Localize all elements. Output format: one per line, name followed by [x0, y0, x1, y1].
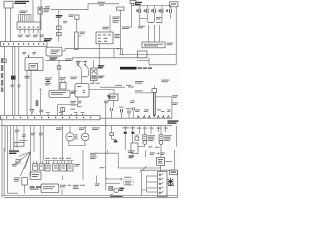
- fuse F2: [144, 6, 148, 13]
- heavy bar continuation dashes: [138, 67, 153, 69]
- center bottom vertical wire: [107, 150, 109, 153]
- interior lamp label: [122, 27, 131, 30]
- diagonal jog wire: [140, 166, 147, 172]
- resistor assembly mid bottom: [110, 126, 114, 136]
- key warning switch label: [44, 8, 51, 12]
- ignition switch text: [20, 11, 28, 13]
- lower label a: [15, 130, 20, 133]
- harness line right continuation: [100, 117, 172, 119]
- wire below fuse F1: [139, 13, 141, 25]
- resistor 1 label: [148, 135, 155, 141]
- nested box radio: [137, 51, 147, 58]
- wire right lower feed: [155, 97, 172, 118]
- left harness wire 1: [4, 46, 6, 115]
- labels on mid right wire: [115, 85, 134, 88]
- text row under flasher: [90, 83, 100, 84]
- blower resistor wire A: [138, 126, 140, 134]
- lower wire L2: [8, 126, 19, 194]
- fusible link label: [45, 6, 50, 9]
- inline tick component bottom left: [16, 160, 20, 163]
- blower resistor box 1: [143, 135, 147, 141]
- relay K4: [67, 161, 73, 171]
- lower wire L3: [10, 126, 12, 150]
- mid-right label A: [135, 81, 144, 84]
- wire into starter relay top: [109, 15, 111, 32]
- hazard label: [98, 76, 104, 79]
- sidebar rotated page label: [1, 58, 3, 92]
- small box on L6: [14, 143, 24, 147]
- wire stub center vertical: [113, 49, 115, 58]
- wire down from module: [113, 101, 115, 108]
- blower resistor box 2: [159, 135, 163, 141]
- wire stub corner to bus: [133, 3, 135, 5]
- wire below small fuse: [76, 19, 78, 32]
- connector box top right corner: [130, 1, 136, 4]
- right drop wire bottom left section: [82, 150, 84, 180]
- right edge wire down: [175, 126, 177, 147]
- headlight switch label right: [167, 43, 174, 46]
- cluster wire down 1: [26, 71, 28, 116]
- lower label d: [39, 133, 43, 136]
- ground block box bottom left: [41, 184, 59, 193]
- blower wire F: [165, 126, 167, 132]
- wire horizontal top feed: [51, 4, 119, 10]
- ignition switch body box: [17, 22, 41, 29]
- relay row header line: [44, 160, 74, 162]
- L-wire from module leg: [95, 153, 161, 171]
- wire into ignition top B: [40, 0, 42, 22]
- fuse panel label (dark): [135, 2, 142, 5]
- gauge label above cluster: [25, 76, 31, 79]
- motor M1 brush marks: [75, 134, 78, 139]
- page border bottom (double line): [2, 195, 178, 197]
- junction star diagonal B: [14, 152, 31, 165]
- starter relay box: [96, 32, 113, 44]
- note text block with frame: [124, 180, 133, 185]
- left harness wire 3: [14, 46, 16, 115]
- rotated label right of diode: [36, 100, 39, 106]
- fuse on main feed (dark blob): [56, 15, 63, 18]
- relay row labels: [45, 158, 71, 159]
- dark connector arrow mid: [107, 95, 111, 99]
- wire to headlight box 2: [154, 25, 156, 42]
- amp rating label: [156, 17, 162, 20]
- label on top feed wire: [98, 2, 106, 6]
- flasher box: [91, 68, 98, 81]
- wire from key switch to bar: [39, 14, 41, 42]
- starter relay top label: [112, 17, 120, 23]
- label right of ground block: [60, 185, 85, 189]
- fuse F5: [166, 6, 171, 13]
- gauge rounded box: [46, 47, 62, 56]
- inline fuse row B: [119, 107, 124, 119]
- bar C2 pin triangles: [47, 114, 83, 116]
- wire from center drop to ground row: [62, 176, 64, 180]
- washer pump label: [60, 77, 66, 80]
- motor M1 ground wire: [69, 141, 85, 146]
- wire into ignition top A: [32, 0, 34, 22]
- label right lower feed: [171, 95, 178, 105]
- wire down to accessory rect: [121, 49, 123, 55]
- toggle switch S2: [85, 60, 89, 76]
- label on module left leg: [104, 101, 109, 104]
- blower wire C: [150, 126, 152, 134]
- lower label c: [31, 133, 35, 136]
- left drop to border: [141, 173, 143, 196]
- right section pin triangles: [137, 116, 169, 119]
- wire from ignition connector pin 2: [9, 8, 11, 42]
- label near wire tick: [39, 110, 44, 113]
- a/c clutch tick: [124, 132, 127, 134]
- small vertical stub left of cluster: [95, 176, 100, 186]
- page border right: [176, 170, 178, 198]
- battery cable component box: [22, 178, 28, 194]
- label right of lamp circle: [148, 146, 159, 147]
- fuse bus wire: [131, 5, 171, 7]
- ignition switch terminal marks: [19, 27, 39, 28]
- headlight switch box: [142, 42, 165, 48]
- wire down from flasher area: [93, 81, 95, 83]
- relay tall narrow box: [75, 32, 79, 50]
- horn relay wire from switch jog: [58, 97, 78, 115]
- label right of fuse: [69, 14, 75, 17]
- second horizontal stub: [106, 182, 120, 184]
- heavy dark bar: [120, 67, 137, 70]
- legend dark text row: [30, 186, 42, 189]
- label top right of fuse rows: [130, 100, 135, 103]
- oil pressure label columns: [71, 101, 82, 110]
- starter motor label dark: [9, 150, 19, 154]
- left harness wire 4: [18, 46, 20, 115]
- mid-right label B: [161, 80, 169, 83]
- washer motor circle: [110, 188, 118, 195]
- cluster wire down 2: [30, 71, 32, 109]
- wire stub right of jog: [77, 105, 79, 107]
- heater blower box: [129, 143, 138, 158]
- lower right horizontal wire: [140, 150, 175, 170]
- switch labels center: [76, 61, 87, 64]
- lower wire L5: [16, 126, 18, 148]
- starter relay label above box: [103, 27, 110, 30]
- wire from turn switch right: [89, 90, 114, 94]
- wire to headlight box 1: [148, 25, 150, 42]
- module leg label: [90, 153, 98, 159]
- relay row label right: [74, 164, 80, 167]
- antenna wire horizontal with ticks: [106, 178, 122, 180]
- tail light connector strip: [158, 172, 168, 197]
- connector bar C2 (main bulkhead): [1, 115, 101, 119]
- key warning switch box: [38, 7, 42, 14]
- wire stub below ignition 4: [33, 29, 35, 33]
- wire stub below ignition 1: [19, 29, 21, 33]
- inline fuse row C: [126, 108, 131, 118]
- relay K2: [53, 161, 59, 171]
- toggle switch S1: [77, 60, 81, 83]
- label lower right of gauge: [65, 58, 72, 61]
- ignition switch contact comb: [19, 15, 32, 22]
- jumper wire under fuses: [140, 18, 147, 20]
- lamp circle under resistor 1: [143, 141, 147, 145]
- lower wire L1: [4, 126, 6, 152]
- lower label f: [79, 127, 85, 130]
- washer motor cluster box with X: [109, 187, 113, 191]
- resistor 2 label: [164, 135, 171, 141]
- a/c clutch wire: [124, 126, 126, 150]
- cluster stub label left: [23, 52, 27, 54]
- nested lower line: [137, 60, 149, 62]
- diode symbol above bar: [30, 110, 34, 116]
- flasher label dark: [98, 65, 104, 68]
- fuel sender label row with arrow: [150, 152, 165, 155]
- wire below fuse F5: [170, 13, 172, 18]
- cluster stub label right: [33, 52, 37, 54]
- junction star diagonal C: [20, 152, 30, 176]
- wire stub below ignition 3: [28, 29, 30, 33]
- inline component 2 on fuse drop: [57, 32, 62, 35]
- turn signal switch tall box: [75, 84, 89, 97]
- cluster dark label: [119, 188, 124, 191]
- main horizontal wire center: [62, 49, 122, 51]
- small box left edge: [135, 135, 139, 141]
- lower harness line: [1, 125, 173, 127]
- relay label: [78, 32, 85, 36]
- starter relay label right: [114, 34, 120, 38]
- wire below fuse F2: [146, 13, 148, 22]
- wire to headlight box 3: [159, 25, 161, 42]
- stepped pin feed wires: [147, 176, 158, 192]
- wire from fuel pump right: [165, 160, 172, 162]
- relay K3: [60, 161, 66, 171]
- inline fuse row D: [132, 107, 134, 118]
- right feed wire: [175, 7, 177, 65]
- fuse on dual feed: [152, 89, 157, 93]
- inline connector on wire 1: [3, 59, 6, 63]
- left harness wire 2: [12, 46, 14, 115]
- warning lamp label dark: [44, 38, 52, 41]
- wiper motor rounded box: [49, 90, 70, 97]
- wire mid horizontal right: [100, 86, 125, 88]
- lower label e: [56, 127, 63, 130]
- wire horizontal mid-left: [46, 59, 73, 61]
- junction star vertical: [30, 152, 32, 176]
- wire down from junction box: [119, 10, 121, 54]
- junction box top center: [117, 7, 125, 10]
- relay K1: [45, 161, 50, 171]
- lower wire L9: [39, 126, 41, 161]
- wire stub below ignition 2: [24, 29, 26, 33]
- connector blob on zigzag: [114, 140, 118, 142]
- labels under right stubs: [137, 128, 168, 129]
- accessory big rect top: [119, 54, 176, 56]
- short ground jumper: [142, 189, 147, 191]
- zigzag wire from resistor assembly: [112, 136, 116, 143]
- heater switch wire: [132, 126, 134, 143]
- small box top right bottom corner: [169, 170, 177, 174]
- fuse F1: [136, 6, 140, 13]
- inline component dark on wire 2: [11, 76, 16, 80]
- accessory big rect bottom: [149, 64, 176, 66]
- dark text below gauge box: [50, 57, 58, 60]
- solenoid relay pair left: [33, 161, 38, 170]
- fuse F3: [151, 6, 155, 13]
- wire from ignition connector pin 1: [5, 8, 7, 42]
- accessory big rect left: [148, 58, 150, 65]
- wire fuse drop: [58, 10, 60, 42]
- bar C2 pin labels: [46, 111, 84, 114]
- cluster feed stub with arrow: [28, 55, 30, 58]
- ignition switch connector box: [4, 1, 13, 8]
- label near tick: [12, 164, 18, 167]
- wire stub ground: [61, 189, 63, 195]
- inline fuse row A: [110, 108, 112, 118]
- resistor 1 bottom wire: [138, 144, 145, 146]
- page number dark text bottom right: [168, 120, 179, 123]
- fuse on dimmer wire: [57, 66, 61, 70]
- label left of cable box: [14, 177, 20, 181]
- wire stub below ignition 5: [37, 29, 39, 33]
- page border left (double line): [2, 118, 4, 198]
- lower wire L10: [42, 126, 44, 161]
- lower wire L7: [30, 126, 32, 152]
- lamp circle under resistor 2: [159, 141, 163, 145]
- bottom caption dashes: [110, 196, 122, 197]
- wire down from corner connector: [130, 3, 132, 28]
- wiper motor circle M1: [66, 126, 74, 141]
- blower wire D: [157, 126, 159, 132]
- lower label b: [22, 134, 26, 137]
- wire below fuse F4: [161, 13, 163, 22]
- ignition module box: [109, 94, 118, 101]
- splice label: [63, 21, 67, 23]
- labels above turn switch: [71, 76, 103, 79]
- inline component 1 on fuse drop: [57, 26, 62, 29]
- wire under fuel pump: [160, 165, 162, 168]
- label top right of L-wire: [128, 150, 135, 153]
- trailer scribble dark: [168, 178, 174, 186]
- heater motor circle M2: [81, 126, 89, 141]
- junction star diagonal A: [19, 152, 31, 157]
- lower label g: [92, 127, 100, 130]
- fuse F4: [159, 6, 163, 13]
- resistor 2 bottom wire: [160, 144, 162, 157]
- label under L2 corner: [100, 167, 105, 168]
- text rows left of wiper box: [45, 77, 52, 85]
- small fuse box top center: [75, 15, 79, 19]
- wire 4 label: [18, 85, 21, 88]
- wire 2 label: [11, 85, 15, 88]
- feed wire v right: [144, 150, 146, 157]
- dimmer feed wire: [58, 60, 60, 90]
- dual wire down with arrow: [153, 86, 156, 118]
- lower wire L8: [33, 126, 35, 152]
- jog wire: [72, 58, 147, 61]
- wire from starter relay down: [98, 44, 100, 68]
- solenoid relay pair right: [39, 161, 44, 170]
- instrument cluster outer box: [25, 58, 43, 71]
- battery box top right: [169, 2, 178, 7]
- left connector bar C1: [1, 42, 48, 47]
- wire below fuse F3: [154, 13, 156, 22]
- inline connector on drop: [61, 108, 65, 116]
- connector label row: [138, 22, 162, 28]
- flasher feed stub: [93, 60, 95, 68]
- fuel pump box: [157, 157, 165, 165]
- junction dot: [117, 48, 118, 49]
- wiper motor stub right: [70, 91, 77, 94]
- lower wire L4: [13, 126, 15, 150]
- junction star diagonal D: [25, 152, 31, 169]
- ignition switch label (dark): [15, 1, 30, 4]
- blower wire E: [160, 126, 162, 135]
- dark splice on heater wire: [131, 132, 134, 134]
- lower label h: [123, 126, 135, 129]
- wire with tick top: [40, 89, 42, 115]
- lower wire L6 with jumper: [19, 126, 28, 143]
- right section labels above pins: [135, 109, 171, 112]
- wire horizontal into dual feed: [135, 90, 152, 93]
- antenna label: [124, 177, 131, 178]
- washer pump box: [60, 81, 66, 89]
- center drop wire: [62, 126, 64, 161]
- bottom center vertical wire: [105, 153, 107, 190]
- box under relay pair: [30, 172, 41, 179]
- instrument cluster inner box: [29, 63, 38, 70]
- wire colour labels under ignition switch: [18, 35, 44, 38]
- wire module left leg: [105, 101, 107, 154]
- blower resistor wire B: [144, 126, 146, 135]
